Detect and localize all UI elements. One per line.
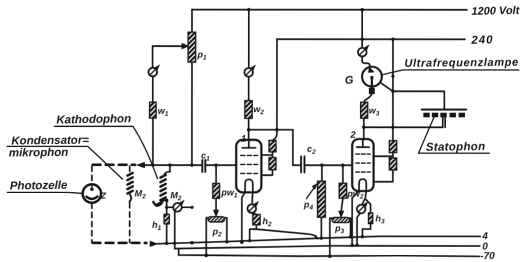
svg-text:M2: M2 [170,190,182,202]
svg-text:-70: -70 [480,251,495,262]
svg-text:p3: p3 [334,223,345,235]
svg-text:Ultrafrequenzlampe: Ultrafrequenzlampe [404,57,519,70]
svg-text:w3: w3 [369,105,380,117]
svg-text:Kondensator=: Kondensator= [11,135,89,148]
svg-text:M2: M2 [135,188,147,200]
svg-text:pw1: pw1 [220,187,238,199]
svg-text:w2: w2 [253,104,264,116]
svg-text:240: 240 [470,34,493,47]
svg-text:h2: h2 [262,216,272,228]
svg-text:Kathodophon: Kathodophon [56,113,131,126]
svg-text:1: 1 [241,134,246,145]
svg-text:Z: Z [100,191,107,201]
svg-text:w1: w1 [158,106,169,118]
svg-text:h3: h3 [375,213,385,225]
svg-text:G: G [345,74,354,86]
svg-text:c2: c2 [307,144,316,156]
svg-text:mikrophon: mikrophon [9,147,69,160]
svg-text:p4: p4 [303,199,314,211]
svg-text:p1: p1 [196,50,207,62]
svg-text:Statophon: Statophon [426,141,486,154]
svg-text:h1: h1 [152,220,162,232]
svg-text:Photozelle: Photozelle [10,180,68,193]
svg-text:1200 Volt: 1200 Volt [471,5,520,18]
svg-text:p2: p2 [212,226,223,238]
svg-text:2: 2 [349,130,356,141]
